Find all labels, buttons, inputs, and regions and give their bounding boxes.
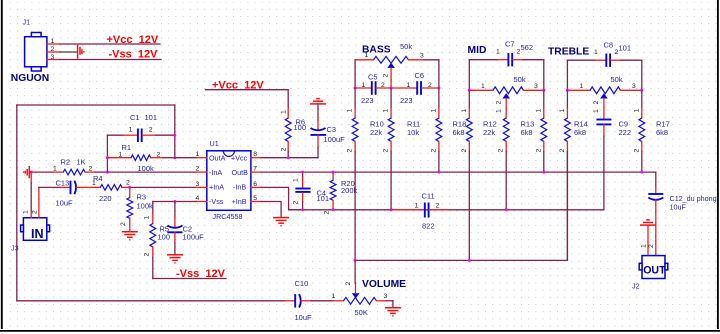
capacitor C1 101 — [107, 113, 174, 142]
wire OutB row corner down to C12 — [655, 172, 657, 187]
potentiometer TREBLE 50k — [567, 75, 641, 113]
wire ground to R2 — [29, 171, 36, 173]
connector J1 NGUON — [25, 33, 47, 72]
svg-text:1K: 1K — [77, 158, 86, 167]
wire OutB row — [261, 171, 655, 173]
svg-text:10uF: 10uF — [670, 202, 687, 211]
resistor R18 6k8 — [430, 88, 466, 172]
svg-text:50k: 50k — [514, 75, 526, 84]
resistor R2 1K — [53, 158, 95, 175]
svg-text:1: 1 — [143, 216, 150, 220]
resistor R17 6k8 on TREBLE right column — [633, 90, 669, 172]
svg-text:U1: U1 — [210, 139, 219, 148]
svg-text:J2: J2 — [632, 282, 640, 291]
J1 pin 3 — [47, 54, 60, 61]
svg-text:2: 2 — [280, 148, 287, 152]
resistor R13 6k8 on MID wiper column — [498, 108, 535, 210]
svg-text:R1: R1 — [122, 143, 132, 152]
svg-text:6k8: 6k8 — [453, 128, 465, 137]
svg-text:-Vss 12V: -Vss 12V — [109, 48, 159, 60]
wire R5 column — [152, 202, 154, 214]
node junction R17 bottom on OutB row — [640, 171, 643, 174]
svg-text:2: 2 — [196, 166, 200, 173]
capacitor C10 10uF — [285, 279, 334, 322]
svg-text:C8: C8 — [604, 41, 614, 50]
svg-text:1: 1 — [496, 109, 503, 113]
svg-text:3: 3 — [632, 83, 636, 90]
resistor (unlabeled 6k8) on MID right column — [535, 90, 546, 172]
wire bottom run to C10 — [17, 300, 285, 302]
node junction R4/R3/+InA — [128, 186, 131, 189]
svg-text:IN: IN — [31, 227, 44, 241]
wire ground to OUT pin1 — [647, 225, 649, 256]
wire pin8 row — [261, 157, 318, 159]
svg-text:10uF: 10uF — [56, 199, 74, 208]
ground above C3 — [310, 99, 326, 104]
wire -Vss from J1 pin3 — [60, 59, 161, 61]
U1 pin 6 — [251, 181, 262, 188]
svg-text:50k: 50k — [400, 42, 412, 51]
svg-text:1: 1 — [535, 109, 542, 113]
svg-text:1: 1 — [23, 210, 30, 214]
wire feedback column — [174, 105, 176, 158]
node junction MID right column on OutB row — [542, 171, 545, 174]
node junction R6 bottom — [287, 156, 290, 159]
svg-text:C1: C1 — [130, 113, 140, 122]
resistor R4 220 — [92, 174, 130, 203]
node junctions C4 — [301, 171, 304, 174]
J1 pin 1 — [47, 38, 60, 45]
svg-text:10k: 10k — [407, 128, 419, 137]
svg-text:50k: 50k — [611, 75, 623, 84]
svg-text:+Vcc 12V: +Vcc 12V — [107, 34, 159, 46]
svg-text:1: 1 — [365, 52, 369, 59]
capacitor C11 822 — [391, 192, 448, 231]
svg-text:101: 101 — [145, 113, 158, 122]
U1 pin 2 — [196, 166, 207, 173]
svg-text:VOLUME: VOLUME — [362, 279, 406, 290]
svg-text:2: 2 — [633, 149, 640, 153]
potentiometer MID 50k — [469, 75, 544, 113]
capacitor C3 100uF — [311, 104, 346, 158]
svg-text:R4: R4 — [93, 174, 103, 183]
U1 pin 5 — [251, 195, 262, 202]
svg-text:+InB: +InB — [232, 197, 247, 206]
svg-text:822: 822 — [422, 222, 435, 231]
wire J1 pin2 to ground — [60, 51, 77, 53]
resistor R12 22k on MID left column — [461, 90, 497, 260]
capacitor C6 223 — [391, 71, 439, 105]
wire volume pin3 to ground — [392, 301, 394, 308]
ground below +InB — [273, 218, 289, 226]
svg-text:2: 2 — [436, 203, 440, 210]
capacitor C8 101 — [567, 41, 641, 67]
connector J2 OUT — [639, 256, 668, 279]
capacitor C13 10uF — [56, 179, 101, 208]
svg-text:1: 1 — [594, 49, 598, 56]
svg-text:223: 223 — [400, 96, 413, 105]
wire TREBLE left column top — [566, 60, 568, 90]
svg-text:222: 222 — [619, 128, 632, 137]
svg-text:1: 1 — [633, 109, 640, 113]
svg-text:3: 3 — [534, 83, 538, 90]
svg-text:1: 1 — [332, 293, 336, 300]
node junction OutA row — [173, 156, 176, 159]
svg-text:2: 2 — [593, 101, 600, 105]
wire pin4 row — [153, 201, 197, 203]
svg-text:101: 101 — [619, 44, 632, 53]
svg-text:2: 2 — [120, 222, 127, 226]
svg-text:2: 2 — [496, 101, 503, 105]
svg-text:1: 1 — [407, 82, 411, 89]
node junction R18 bottom on OutB row — [437, 171, 440, 174]
svg-text:100uF: 100uF — [324, 135, 346, 144]
resistor R6 100 — [280, 108, 306, 158]
svg-text:2: 2 — [615, 49, 619, 56]
svg-text:C7: C7 — [505, 40, 515, 49]
svg-text:1: 1 — [481, 83, 485, 90]
IN pin 2 — [32, 187, 39, 217]
svg-text:2: 2 — [345, 282, 352, 286]
svg-text:10uF: 10uF — [295, 313, 313, 322]
svg-text:2: 2 — [381, 82, 385, 89]
ground left of R2 — [24, 166, 30, 178]
svg-text:22k: 22k — [483, 128, 495, 137]
wire OutA to feedback column — [175, 157, 197, 159]
IN pin 1 — [23, 172, 32, 218]
svg-text:2: 2 — [383, 149, 390, 153]
svg-text:NGUON: NGUON — [11, 73, 49, 84]
capacitor C9 222 on TREBLE wiper column — [596, 108, 631, 210]
svg-text:R3: R3 — [137, 193, 147, 202]
svg-text:-InB: -InB — [233, 183, 246, 192]
svg-text:1: 1 — [129, 127, 133, 134]
svg-text:2: 2 — [535, 149, 542, 153]
capacitor C7 562 — [469, 40, 544, 67]
svg-text:1: 1 — [362, 82, 366, 89]
svg-text:6k8: 6k8 — [521, 128, 533, 137]
svg-text:2: 2 — [517, 49, 521, 56]
svg-text:J3: J3 — [11, 244, 19, 253]
svg-text:C11: C11 — [422, 192, 435, 201]
U1 pin 4 — [196, 195, 207, 202]
wire TREBLE right column top — [641, 60, 643, 90]
svg-text:100uF: 100uF — [183, 233, 205, 242]
svg-text:+Vcc: +Vcc — [231, 153, 248, 162]
svg-text:1: 1 — [119, 151, 123, 158]
wire +Vcc from J1 pin1 — [60, 43, 160, 45]
wire BASS wiper column — [390, 80, 392, 88]
wire R4 node to U1 +InA — [130, 186, 197, 188]
svg-text:3: 3 — [51, 54, 55, 61]
svg-text:1: 1 — [347, 109, 354, 113]
svg-text:220: 220 — [99, 194, 112, 203]
svg-text:1: 1 — [559, 109, 566, 113]
svg-text:2: 2 — [293, 201, 300, 205]
U1 pin 3 — [196, 181, 207, 188]
svg-text:C3: C3 — [327, 125, 337, 134]
svg-text:R2: R2 — [61, 158, 71, 167]
resistor R5 100 — [143, 214, 170, 279]
svg-text:1: 1 — [580, 83, 584, 90]
wire +Vcc rail — [206, 90, 289, 108]
resistor R3 100k — [120, 187, 153, 231]
node junction MID left column on bus — [468, 259, 471, 262]
node junction volume wiper on bus — [354, 259, 357, 262]
wire R2 to node A — [95, 171, 107, 173]
svg-text:C5: C5 — [368, 72, 378, 81]
svg-text:2: 2 — [428, 82, 432, 89]
svg-text:223: 223 — [361, 96, 374, 105]
capacitor C12_du phong 10uF — [648, 187, 716, 212]
ground below C2 — [167, 255, 183, 263]
capacitor C5 223 — [355, 72, 391, 105]
U1 pin 7 — [251, 166, 262, 173]
svg-text:TREBLE: TREBLE — [548, 47, 589, 58]
svg-text:2: 2 — [32, 210, 39, 214]
connector J3 IN — [21, 218, 50, 241]
svg-text:1: 1 — [51, 38, 55, 45]
U1 pin 8 — [251, 151, 262, 158]
svg-text:100: 100 — [158, 233, 171, 242]
svg-text:1: 1 — [196, 151, 200, 158]
node junction C2 top — [173, 200, 176, 203]
svg-text:50K: 50K — [355, 308, 368, 317]
svg-text:2: 2 — [498, 149, 505, 153]
wire C12 to OUT pin2 — [655, 212, 657, 256]
svg-text:2: 2 — [461, 149, 468, 153]
svg-text:1: 1 — [593, 109, 600, 113]
svg-text:2: 2 — [559, 149, 566, 153]
svg-text:22k: 22k — [370, 128, 382, 137]
svg-text:3: 3 — [384, 293, 388, 300]
svg-text:2: 2 — [149, 127, 153, 134]
svg-text:-InA: -InA — [209, 168, 222, 177]
svg-text:-Vss 12V: -Vss 12V — [176, 268, 226, 280]
resistor R20 200k — [324, 172, 358, 214]
wire BASS right column — [438, 60, 440, 88]
svg-text:+InA: +InA — [209, 183, 224, 192]
svg-text:1: 1 — [53, 166, 57, 173]
potentiometer BASS 50k — [355, 42, 439, 80]
svg-text:2: 2 — [51, 46, 55, 53]
ground below R3 — [122, 232, 138, 240]
svg-text:7: 7 — [253, 166, 257, 173]
svg-text:1: 1 — [496, 49, 500, 56]
svg-text:100k: 100k — [137, 202, 154, 211]
svg-text:100: 100 — [294, 123, 307, 132]
svg-text:8: 8 — [253, 151, 257, 158]
node junction IN pin1 on R2 row — [30, 171, 33, 174]
svg-text:100k: 100k — [138, 164, 155, 173]
svg-text:1: 1 — [383, 109, 390, 113]
wire node A to U1 -InA — [107, 171, 196, 173]
capacitor C2 100uF — [167, 202, 204, 255]
node A junction — [106, 171, 109, 174]
wire MID left column top — [468, 60, 470, 91]
wire BASS left column — [354, 60, 356, 88]
op-amp U1 JRC4558 — [207, 151, 251, 211]
ground above OUT — [640, 220, 656, 225]
node junction C1 right — [173, 134, 176, 137]
node junctions R20 — [332, 171, 335, 174]
resistor R14 6k8 on TREBLE left column — [559, 90, 588, 260]
svg-text:OutA: OutA — [209, 153, 226, 162]
wire +InB to ground — [261, 202, 281, 218]
wire IN pin2 to C13 — [39, 186, 60, 188]
node junction R13 bottom on feedback2 row — [505, 208, 508, 211]
resistor R10 22k — [347, 88, 384, 260]
J1 pin 2 — [47, 46, 60, 53]
svg-text:C6: C6 — [415, 71, 425, 80]
svg-text:6k8: 6k8 — [656, 128, 668, 137]
wire feedback2 row — [289, 209, 604, 211]
svg-text:2: 2 — [157, 151, 161, 158]
svg-text:3: 3 — [196, 181, 200, 188]
node junctions BASS top row — [354, 87, 357, 90]
wire bottom bus — [355, 152, 567, 261]
wire MID right column top — [543, 60, 545, 91]
svg-text:2: 2 — [126, 180, 130, 187]
svg-text:2: 2 — [324, 211, 331, 215]
node junction R1 left — [106, 156, 109, 159]
svg-text:5: 5 — [253, 195, 257, 202]
svg-text:J1: J1 — [23, 18, 31, 27]
svg-text:2: 2 — [143, 253, 150, 257]
svg-text:-Vss: -Vss — [209, 197, 224, 206]
svg-text:2: 2 — [648, 244, 655, 248]
wire node A column up — [106, 135, 108, 172]
svg-text:C10: C10 — [295, 279, 309, 288]
U1 pin 1 — [196, 151, 207, 158]
node junctions TREBLE pot row — [566, 89, 569, 92]
svg-text:OUT: OUT — [643, 264, 666, 276]
wire -Vss row — [153, 278, 226, 280]
svg-text:2: 2 — [89, 166, 93, 173]
ground below volume pin3 — [385, 308, 401, 316]
svg-text:2: 2 — [382, 74, 389, 78]
svg-text:1: 1 — [415, 203, 419, 210]
wire left vertical — [16, 105, 18, 301]
svg-text:1: 1 — [430, 109, 437, 113]
svg-text:2: 2 — [347, 149, 354, 153]
resistor R1 100k — [107, 143, 174, 173]
svg-text:6k8: 6k8 — [574, 128, 586, 137]
svg-text:1: 1 — [280, 110, 287, 114]
svg-text:1: 1 — [293, 178, 300, 182]
wire -InB to feedback2 — [261, 187, 302, 209]
svg-text:2: 2 — [430, 149, 437, 153]
svg-text:3: 3 — [420, 53, 424, 60]
svg-text:MID: MID — [468, 45, 487, 56]
svg-text:1: 1 — [461, 109, 468, 113]
svg-text:562: 562 — [521, 43, 534, 52]
svg-text:OutB: OutB — [232, 168, 249, 177]
svg-text:C13: C13 — [56, 179, 70, 188]
svg-text:6: 6 — [253, 181, 257, 188]
svg-text:JRC4558: JRC4558 — [213, 212, 243, 221]
potentiometer VOLUME 50K — [332, 260, 393, 317]
resistor R11 10k on wiper column — [383, 88, 421, 210]
svg-text:101: 101 — [317, 194, 330, 203]
capacitor C4 101 — [293, 172, 329, 210]
node junction R11 bottom on feedback2 row — [390, 208, 393, 211]
ground right of J1 pin2 — [78, 45, 84, 59]
wire feedback top — [17, 104, 175, 106]
node junctions MID pot row — [468, 89, 471, 92]
svg-text:1: 1 — [640, 244, 647, 248]
